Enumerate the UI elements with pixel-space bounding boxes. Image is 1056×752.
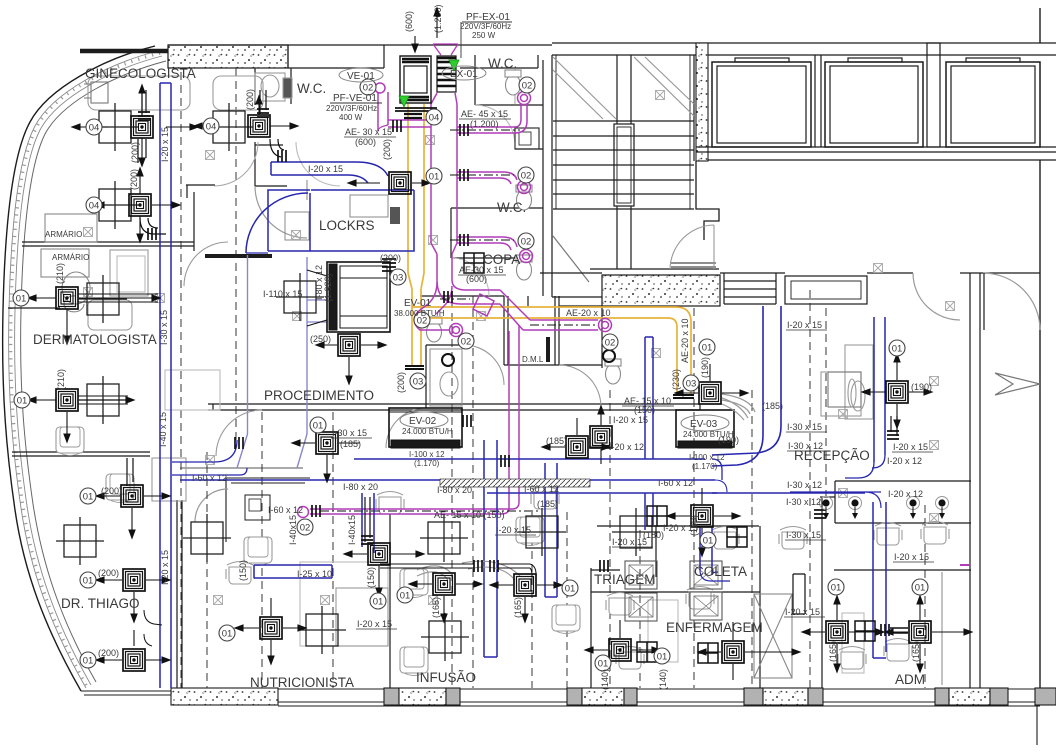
green arrows — [399, 96, 409, 107]
thick top-left beam — [80, 49, 168, 54]
svg-text:01: 01 — [83, 656, 94, 667]
svg-text:(150): (150) — [238, 560, 248, 581]
svg-text:I-30 x 12: I-30 x 12 — [788, 441, 823, 451]
svg-text:W.C.: W.C. — [297, 81, 326, 96]
svg-text:I-110 x 15: I-110 x 15 — [263, 289, 302, 299]
entrance X door — [754, 594, 792, 678]
svg-text:38.000 BTU/H: 38.000 BTU/H — [394, 309, 445, 318]
svg-text:03: 03 — [686, 379, 697, 390]
svg-text:01: 01 — [915, 583, 926, 594]
EV-02 unit — [389, 408, 462, 448]
svg-text:04: 04 — [206, 122, 217, 133]
desk blocks lower left — [300, 562, 388, 646]
svg-text:I-40x15: I-40x15 — [347, 515, 357, 545]
svg-text:01: 01 — [657, 652, 668, 663]
svg-text:ARMÁRIO: ARMÁRIO — [52, 253, 89, 262]
svg-text:EV-01: EV-01 — [404, 298, 432, 309]
shelves — [724, 273, 776, 304]
svg-text:I-20 x 15: I-20 x 15 — [357, 619, 392, 629]
svg-text:I-30 x 15: I-30 x 15 — [159, 310, 169, 345]
svg-text:(165): (165) — [513, 597, 523, 618]
GINECOLOGISTA rooms walls — [186, 185, 215, 251]
door arcs — [184, 242, 228, 286]
svg-text:EX-01: EX-01 — [450, 69, 478, 80]
svg-text:01: 01 — [313, 421, 324, 432]
svg-text:04: 04 — [429, 113, 440, 124]
door arcs hall — [913, 273, 960, 320]
svg-text:250 W: 250 W — [472, 31, 496, 40]
svg-text:400 W: 400 W — [339, 113, 363, 122]
svg-text:01: 01 — [83, 492, 94, 503]
svg-text:I-40 x 15: I-40 x 15 — [158, 412, 168, 447]
right risers — [712, 306, 781, 466]
svg-text:(600): (600) — [404, 11, 414, 32]
D.M.L vertical down — [509, 325, 519, 508]
svg-text:(150): (150) — [634, 405, 655, 415]
dark column rect — [390, 207, 400, 224]
svg-text:(1.170): (1.170) — [414, 459, 440, 468]
svg-text:AE- 45 x 15: AE- 45 x 15 — [461, 109, 508, 119]
dashed ceiling axis lines — [181, 68, 925, 688]
svg-text:(200): (200) — [382, 139, 392, 160]
svg-text:02: 02 — [521, 171, 532, 182]
svg-text:(1.200): (1.200) — [433, 4, 443, 33]
svg-text:EV-03: EV-03 — [690, 419, 718, 430]
LOCKRS outline — [268, 190, 414, 251]
top wall — [168, 44, 552, 46]
bottom room dividers — [389, 510, 391, 688]
corridor top wall — [208, 404, 700, 410]
svg-text:01: 01 — [702, 343, 713, 354]
sink W.C. top — [255, 73, 285, 101]
svg-text:(190): (190) — [718, 435, 739, 445]
recepcao desk — [845, 345, 873, 419]
exam couches GINECOLOGISTA — [88, 76, 190, 110]
svg-text:AE-20 x 10: AE-20 x 10 — [680, 318, 690, 363]
svg-text:(185): (185) — [537, 499, 558, 509]
svg-text:220V/3F/60Hz: 220V/3F/60Hz — [326, 104, 377, 113]
svg-text:01: 01 — [429, 172, 440, 183]
svg-text:01: 01 — [565, 584, 576, 595]
D.M.L block — [420, 296, 504, 408]
svg-text:(165): (165) — [431, 597, 441, 618]
svg-text:I-20 x 15: I-20 x 15 — [785, 607, 820, 617]
branch fittings — [460, 124, 468, 136]
left side walls — [22, 242, 194, 246]
svg-text:I-20 x 15: I-20 x 15 — [612, 537, 647, 547]
svg-text:01: 01 — [598, 659, 609, 670]
svg-text:(200): (200) — [130, 142, 140, 163]
svg-text:ENFERMAGEM: ENFERMAGEM — [666, 620, 763, 635]
svg-text:03: 03 — [413, 377, 424, 388]
svg-text:ADM: ADM — [895, 672, 925, 687]
svg-text:EV-02: EV-02 — [409, 416, 437, 427]
svg-text:VE-01: VE-01 — [347, 71, 375, 82]
svg-text:I-100 x 12: I-100 x 12 — [689, 453, 725, 462]
DR THIAGO furniture — [152, 458, 186, 501]
kitchen PROCEDIMENTO — [226, 478, 310, 542]
arc into LOCKRS — [246, 193, 308, 253]
svg-text:01: 01 — [892, 344, 903, 355]
svg-text:I-30 x 12: I-30 x 12 — [787, 480, 822, 490]
svg-text:(190): (190) — [700, 357, 710, 378]
nutricionista chair — [226, 562, 254, 585]
svg-text:02: 02 — [363, 83, 374, 94]
svg-text:(165): (165) — [828, 641, 838, 662]
svg-text:(1.920): (1.920) — [323, 273, 333, 302]
diffuser arrows — [28, 85, 972, 680]
svg-text:(200): (200) — [98, 648, 119, 658]
right outer wall — [1039, 8, 1041, 688]
svg-text:02: 02 — [461, 337, 472, 348]
verticals center-south — [645, 337, 653, 459]
wall jog right of stairs — [696, 161, 719, 240]
svg-text:I-60 x 12: I-60 x 12 — [268, 505, 303, 515]
svg-text:AE- 15 x 10 (150): AE- 15 x 10 (150) — [434, 510, 505, 520]
svg-text:PROCEDIMENTO: PROCEDIMENTO — [264, 388, 374, 403]
svg-text:I-80 x 20: I-80 x 20 — [343, 482, 378, 492]
svg-text:COLETA: COLETA — [694, 564, 747, 579]
svg-text:LOCKRS: LOCKRS — [319, 218, 375, 233]
svg-text:I-20 x 15: I-20 x 15 — [894, 552, 929, 562]
left trunk — [160, 83, 171, 688]
svg-text:I-60 x 12: I-60 x 12 — [658, 478, 693, 488]
grille below EV01 area — [382, 259, 396, 271]
entry arrow — [995, 373, 1040, 395]
svg-text:(230): (230) — [671, 369, 681, 390]
svg-text:TRIAGEM: TRIAGEM — [594, 572, 656, 587]
svg-text:(200): (200) — [98, 568, 119, 578]
top center W.C block — [451, 55, 543, 296]
EV-03 unit — [676, 410, 734, 448]
W.C. branches — [457, 127, 515, 133]
svg-text:I-20 x 15: I-20 x 15 — [160, 127, 170, 162]
svg-text:(200): (200) — [129, 169, 139, 190]
svg-text:PF-VE-01: PF-VE-01 — [333, 93, 377, 104]
recepcao right corridor walls — [970, 273, 980, 688]
flex connections gray — [309, 38, 755, 580]
top hatched band — [168, 45, 288, 68]
rotated labels — [55, 4, 921, 690]
svg-text:(1.170): (1.170) — [692, 462, 718, 471]
svg-text:01: 01 — [400, 591, 411, 602]
4 waiting dots — [820, 497, 949, 520]
svg-text:I-100 x 12: I-100 x 12 — [409, 450, 445, 459]
EV-01 unit — [307, 262, 390, 332]
svg-text:(185): (185) — [546, 436, 567, 446]
INFUSAO chairs — [400, 569, 428, 598]
svg-text:(180): (180) — [643, 530, 664, 540]
yellow end grilles — [405, 366, 424, 369]
svg-text:(210): (210) — [56, 369, 66, 390]
corridor hatch band — [440, 479, 590, 487]
fittings on ducts — [148, 228, 156, 240]
svg-text:(165): (165) — [911, 641, 921, 662]
svg-text:I-60 x 12: I-60 x 12 — [192, 473, 227, 483]
svg-text:I-80 x 20: I-80 x 20 — [437, 485, 472, 495]
top horizontal duct — [271, 162, 388, 183]
svg-text:01: 01 — [83, 576, 94, 587]
DERMATOLOGISTA furniture — [110, 250, 148, 296]
svg-text:I-20 x 15: I-20 x 15 — [893, 442, 928, 452]
svg-text:01: 01 — [222, 629, 233, 640]
svg-text:I-60 x 12: I-60 x 12 — [524, 484, 559, 494]
svg-text:(185): (185) — [340, 439, 361, 449]
svg-text:DERMATOLOGISTA: DERMATOLOGISTA — [33, 332, 157, 347]
svg-text:I-25 x 10: I-25 x 10 — [297, 569, 332, 579]
svg-text:W.C.: W.C. — [488, 56, 517, 71]
to fitting circle right — [523, 320, 598, 330]
svg-text:04: 04 — [89, 123, 100, 134]
svg-text:01: 01 — [373, 597, 384, 608]
ADM furniture — [842, 613, 864, 673]
svg-text:I-20 x 15: I-20 x 15 — [613, 415, 648, 425]
black duct stubs (branch connections) — [78, 90, 908, 646]
ceiling xbox markers — [84, 91, 955, 605]
svg-text:W.C.: W.C. — [497, 200, 526, 215]
svg-text:D.M.L: D.M.L — [522, 355, 544, 364]
svg-text:01: 01 — [703, 536, 714, 547]
svg-text:01: 01 — [16, 294, 27, 305]
counter — [785, 276, 867, 304]
left branch to 02 — [420, 282, 452, 314]
svg-text:03: 03 — [393, 273, 404, 284]
svg-text:AE- 30 x 15: AE- 30 x 15 — [345, 127, 392, 137]
svg-text:I-30 x 15: I-30 x 15 — [786, 530, 821, 540]
svg-text:I-20 x 12: I-20 x 12 — [887, 456, 922, 466]
svg-text:(150): (150) — [366, 567, 376, 588]
armario boxes — [45, 214, 97, 242]
svg-text:ARMÁRIO: ARMÁRIO — [45, 230, 82, 239]
PF-VE-01 duct — [378, 92, 388, 131]
svg-text:220V/3F/60Hz: 220V/3F/60Hz — [460, 22, 511, 31]
svg-text:(200): (200) — [101, 486, 122, 496]
VE-01 fan — [395, 56, 437, 118]
diamond damper — [473, 294, 494, 316]
EX-01 fan — [437, 56, 456, 92]
svg-text:AE-20 x 10: AE-20 x 10 — [566, 308, 611, 318]
svg-text:(200): (200) — [245, 89, 255, 110]
svg-text:04: 04 — [89, 201, 100, 212]
svg-text:(1.200): (1.200) — [470, 119, 499, 129]
trunk from EX-01 — [431, 104, 457, 243]
svg-text:01: 01 — [17, 396, 28, 407]
hourglass above EX fan — [433, 44, 458, 55]
dash-dot lines on exhaust branches — [320, 130, 598, 511]
triagem chairs — [606, 593, 634, 616]
W.C. fixtures — [426, 70, 621, 406]
svg-text:02: 02 — [300, 523, 311, 534]
svg-text:I-20 x 15: I-20 x 15 — [496, 525, 531, 535]
stairwell — [552, 55, 719, 297]
svg-text:I-20 x 12: I-20 x 12 — [609, 442, 644, 452]
svg-text:(600): (600) — [466, 274, 487, 284]
svg-text:NUTRICIONISTA: NUTRICIONISTA — [250, 675, 354, 690]
svg-text:I-30 x 15: I-30 x 15 — [787, 422, 822, 432]
svg-text:(180): (180) — [689, 515, 699, 536]
svg-text:I-40x15: I-40x15 — [288, 515, 298, 545]
svg-text:(600): (600) — [355, 137, 376, 147]
bottom exterior band — [81, 688, 1056, 745]
svg-text:(200): (200) — [396, 372, 406, 393]
svg-text:(200): (200) — [380, 253, 401, 263]
bottom elbow right — [437, 280, 500, 304]
svg-text:I-30 x 12: I-30 x 12 — [786, 497, 821, 507]
svg-text:02: 02 — [521, 237, 532, 248]
svg-text:I-20 x 15: I-20 x 15 — [787, 320, 822, 330]
svg-text:(190): (190) — [911, 382, 932, 392]
svg-text:24.000 BTU/H: 24.000 BTU/H — [402, 427, 453, 436]
svg-text:(140): (140) — [600, 669, 610, 690]
recepcao chairs — [874, 523, 902, 546]
svg-text:(210): (210) — [55, 263, 65, 284]
svg-text:(250): (250) — [310, 334, 331, 344]
elevator hall hatched column — [696, 43, 708, 161]
svg-text:02: 02 — [605, 338, 616, 349]
svg-text:I-30 x 15: I-30 x 15 — [332, 428, 367, 438]
svg-text:I-20 x 15: I-20 x 15 — [308, 164, 343, 174]
left curved facade — [3, 46, 155, 691]
svg-text:(140): (140) — [658, 669, 668, 690]
coleta sink tables — [625, 561, 657, 589]
svg-text:GINECOLOGISTA: GINECOLOGISTA — [85, 66, 196, 81]
svg-text:01: 01 — [831, 583, 842, 594]
svg-text:DR. THIAGO: DR. THIAGO — [61, 596, 140, 611]
svg-text:INFUSÃO: INFUSÃO — [416, 670, 476, 685]
elevators — [696, 43, 1056, 160]
svg-text:I-20 x 12: I-20 x 12 — [888, 489, 923, 499]
svg-text:(185): (185) — [762, 401, 783, 411]
svg-text:02: 02 — [522, 81, 533, 92]
riser arrows top — [412, 8, 440, 52]
svg-text:I-20 x 15: I-20 x 15 — [160, 550, 170, 585]
hall lower walls — [540, 272, 602, 274]
top right wall band — [552, 43, 1056, 55]
corridor main duct — [354, 458, 705, 460]
